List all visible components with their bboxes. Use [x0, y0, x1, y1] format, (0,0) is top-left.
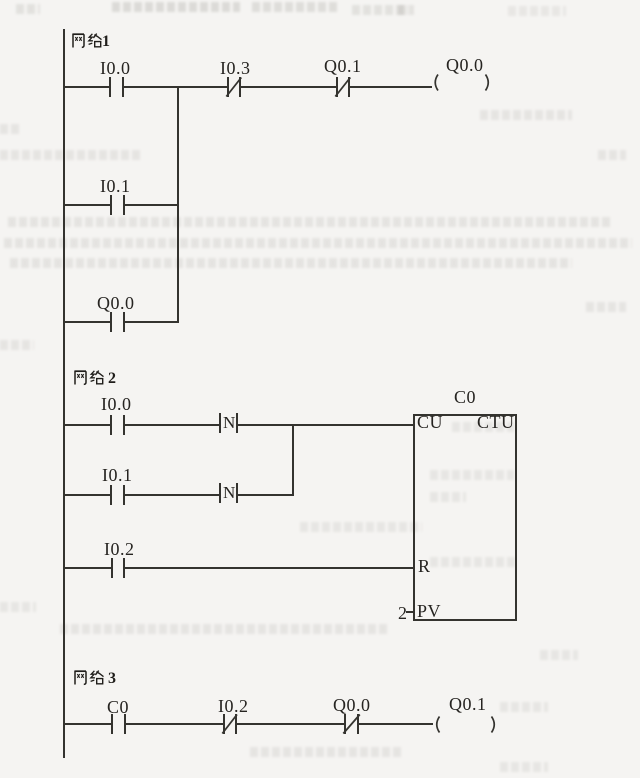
label I0.2 (N2)	[104, 540, 135, 558]
wire rung2b seg1	[64, 494, 110, 496]
pin label CTU	[477, 413, 515, 431]
wire rung3 seg3	[237, 723, 345, 725]
contact I0.0 (N2)	[110, 415, 112, 435]
faint bleed-through near network2	[452, 422, 514, 432]
wire 2 to PV	[406, 611, 414, 613]
contact Q0.1 NC	[336, 77, 338, 97]
faint bleed-through bottom	[500, 702, 548, 712]
branch vertical wire N1	[177, 86, 179, 323]
wire rung1 seg3	[241, 86, 337, 88]
wire rung2b seg3 to junction	[238, 494, 294, 496]
wire branch rung I0.1 seg1	[64, 204, 110, 206]
wire rung2a seg1	[64, 424, 110, 426]
label Q0.0 (N3)	[333, 696, 371, 714]
wire rung3 seg4	[359, 723, 433, 725]
wire rung3 seg1	[64, 723, 112, 725]
counter box C0 CTU	[413, 414, 517, 621]
faint bleed-through band top	[16, 4, 40, 14]
wire rung2a seg3 to counter	[238, 424, 414, 426]
label I0.0 (N2)	[101, 395, 132, 413]
faint bleed-through middle band	[8, 217, 612, 227]
network 2 label (wangluo glyphs)	[74, 370, 105, 386]
label Q0.1	[324, 57, 362, 75]
left power rail	[63, 29, 65, 758]
contact C0	[111, 714, 113, 734]
coil Q0.0	[430, 73, 494, 95]
edge detector N 1	[219, 413, 221, 433]
faint bleed-through right of network1	[480, 110, 572, 120]
label Q0.1 coil	[449, 695, 487, 713]
counter C0 label	[454, 388, 476, 406]
wire rung1 seg1	[64, 86, 109, 88]
wire branch rung Q0.0 seg1	[64, 321, 110, 323]
contact I0.1 (N2)	[110, 485, 112, 505]
PV preset value 2	[398, 604, 408, 622]
wire rung1 seg2	[124, 86, 227, 88]
coil Q0.1	[432, 715, 498, 737]
wire rung2a seg2	[125, 424, 220, 426]
wire rung2c seg2 to counter R	[125, 567, 414, 569]
contact I0.1	[110, 195, 112, 215]
contact I0.3 NC	[227, 77, 229, 97]
contact I0.2 (N2)	[111, 558, 113, 578]
contact I0.0 (N1)	[109, 77, 111, 97]
pin label CU	[417, 413, 443, 431]
network 3 label (wangluo glyphs)	[74, 670, 105, 686]
contact Q0.0	[110, 312, 112, 332]
wire branch rung Q0.0 seg2	[125, 321, 179, 323]
edge detector N 2	[219, 483, 221, 503]
label Q0.0 coil	[446, 56, 484, 74]
wire rung3 seg2	[126, 723, 224, 725]
label I0.2 (N3)	[218, 697, 249, 715]
label Q0.0 contact	[97, 294, 135, 312]
wire rung1 seg4	[350, 86, 432, 88]
pin label R	[418, 557, 431, 575]
pin label PV	[417, 602, 441, 620]
network 1 label (wangluo glyphs)	[72, 33, 103, 49]
wire branch rung I0.1 seg2	[125, 204, 179, 206]
label I0.0 (N1)	[100, 59, 131, 77]
wire rung2c seg1	[64, 567, 111, 569]
label I0.1	[100, 177, 131, 195]
label C0 contact	[107, 698, 129, 716]
wire rung2b seg2	[125, 494, 219, 496]
contact Q0.0 NC (N3)	[344, 714, 346, 734]
label I0.3	[220, 59, 251, 77]
label I0.1 (N2)	[102, 466, 133, 484]
junction vertical wire	[292, 424, 294, 496]
contact I0.2 NC (N3)	[223, 714, 225, 734]
